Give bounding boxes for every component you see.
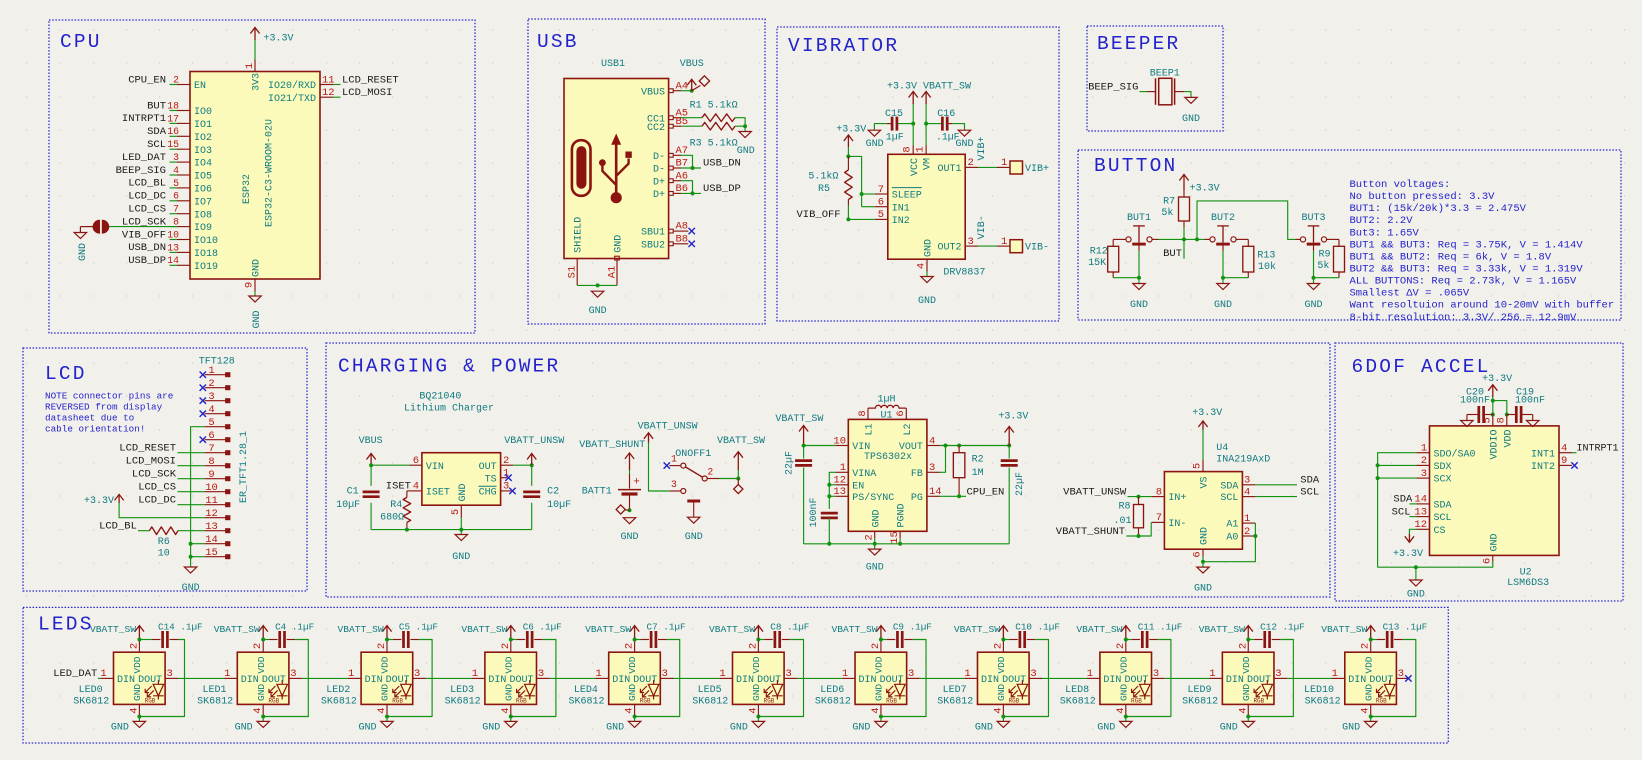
svg-text:FB: FB <box>911 469 923 480</box>
junction VDD LED1 <box>261 638 265 642</box>
svg-text:A1: A1 <box>1226 520 1238 531</box>
power VBATT_UNSW (charger out) <box>527 454 536 466</box>
LED unit LED9 SK6812 body <box>1222 652 1274 704</box>
svg-text:Lithium Charger: Lithium Charger <box>404 403 494 415</box>
wire BUT1 left to R12 <box>1113 238 1126 240</box>
wire D- A7 to B7 net USB_DN <box>681 155 693 168</box>
LED7 internal diode symbol <box>1009 680 1027 700</box>
TFT128 pin 9 <box>205 478 226 480</box>
wire stub net BUT <box>1183 239 1185 258</box>
ground symbol (CPU jumper) <box>74 233 86 239</box>
svg-text:LCD: LCD <box>45 363 87 385</box>
resistor R2 1M <box>958 446 960 453</box>
junction R8 top <box>1137 495 1141 499</box>
svg-text:LCD_RESET: LCD_RESET <box>342 74 399 86</box>
junction accel ground <box>1414 565 1418 569</box>
wire BUT1 stem to ground <box>1138 251 1140 284</box>
svg-text:IO5: IO5 <box>194 172 212 183</box>
svg-text:10: 10 <box>158 549 170 560</box>
resistor R4 680 <box>407 490 410 492</box>
svg-text:4: 4 <box>208 404 214 416</box>
svg-text:GND: GND <box>866 563 884 574</box>
svg-text:GND: GND <box>1489 533 1500 551</box>
svg-text:GND: GND <box>1363 684 1374 701</box>
svg-text:15K: 15K <box>1088 258 1106 269</box>
power VBATT_SW (switch) <box>734 452 743 470</box>
TFT128 pin 11 <box>205 504 226 506</box>
wire FB to VOUT <box>940 446 946 473</box>
svg-text:+: + <box>633 477 640 489</box>
svg-text:USB_DN: USB_DN <box>128 242 166 254</box>
wire+net label LCD_DC <box>178 504 205 506</box>
resistor R6 10 <box>149 527 178 535</box>
pin PG (14) <box>927 495 940 497</box>
svg-text:SK6812: SK6812 <box>321 697 357 708</box>
pin GND (6) bottom accel <box>1492 555 1494 561</box>
wire BUT2 stem to ground <box>1222 251 1224 284</box>
svg-text:SBU1: SBU1 <box>641 228 665 239</box>
svg-text:VINA: VINA <box>852 469 876 480</box>
svg-text:1: 1 <box>348 668 354 680</box>
LED unit LED3 SK6812 body <box>485 652 537 704</box>
junction R5 top <box>846 154 850 158</box>
svg-text:EN: EN <box>852 481 864 492</box>
resistor R9 5k <box>1334 246 1345 272</box>
svg-text:C11 .1µF: C11 .1µF <box>1138 622 1183 633</box>
wire R9 bottom to BUT3 ground <box>1338 272 1340 278</box>
svg-text:LCD_SCK: LCD_SCK <box>132 469 177 481</box>
svg-text:VM: VM <box>923 158 934 170</box>
svg-text:GND: GND <box>975 723 993 734</box>
pin VDD (2) of LED9 <box>1247 640 1249 653</box>
svg-text:3: 3 <box>173 152 179 163</box>
pin SDA (3) with label <box>1242 484 1255 486</box>
no-connect TFT128 pin 4 <box>200 411 206 417</box>
pin DIN (1) of LED4 <box>596 677 609 679</box>
svg-text:2: 2 <box>1237 643 1249 649</box>
junction VDD LED6 <box>879 638 883 642</box>
ground symbol (BUT2) <box>1217 284 1229 290</box>
svg-text:VBATT_SW: VBATT_SW <box>1199 624 1245 635</box>
pin VDD (2) of LED2 <box>386 640 388 653</box>
svg-text:C2: C2 <box>547 487 559 498</box>
svg-text:GND: GND <box>1342 723 1360 734</box>
wire pin12 to +3.3V <box>119 503 205 518</box>
svg-text:8: 8 <box>857 410 869 416</box>
svg-text:LEDS: LEDS <box>38 614 94 636</box>
wire BEEP_SIG to buzzer <box>1140 91 1148 93</box>
junction pin14 <box>189 542 193 546</box>
junction VDD LED10 <box>1369 638 1373 642</box>
svg-text:TS: TS <box>485 474 497 485</box>
connector VIB- (pin 1) <box>997 245 1010 247</box>
svg-text:3: 3 <box>414 668 420 680</box>
svg-text:9: 9 <box>244 282 256 288</box>
svg-text:RGB: RGB <box>1253 697 1264 704</box>
LED0 internal diode symbol <box>145 680 164 700</box>
junction USB_DP <box>691 191 695 195</box>
IC U? ESP32-C3-WROOM-02U body <box>190 72 320 280</box>
junction 100nF rail <box>827 542 831 546</box>
svg-text:+3.3V: +3.3V <box>264 34 294 45</box>
pin VINA (1) <box>835 471 848 473</box>
svg-text:BUT: BUT <box>147 100 166 112</box>
svg-text:C10 .1µF: C10 .1µF <box>1015 622 1060 633</box>
junction VDD LED9 <box>1246 638 1250 642</box>
ground symbol (CPU) <box>249 296 261 302</box>
USB1 pin D- (B7) <box>669 166 674 170</box>
svg-text:11: 11 <box>322 74 335 86</box>
svg-text:2: 2 <box>208 378 214 390</box>
pin DIN (1) of LED10 <box>1332 677 1345 679</box>
svg-text:8: 8 <box>1495 417 1507 423</box>
pin TS (1) no-connect <box>501 477 507 479</box>
svg-text:IO9: IO9 <box>194 223 212 234</box>
junction VDD LED5 <box>756 638 760 642</box>
svg-text:VBUS: VBUS <box>641 87 665 98</box>
capacitor 100nF (TPS) <box>821 513 838 518</box>
junction BUT2 ground <box>1221 276 1225 280</box>
section border USB <box>528 19 765 324</box>
ground symbol (battery) <box>623 518 635 524</box>
svg-text:OUT2: OUT2 <box>937 243 961 254</box>
svg-text:1: 1 <box>472 668 478 680</box>
ground symbol (LED0) <box>138 717 140 722</box>
svg-text:R13: R13 <box>1257 251 1275 262</box>
svg-text:SDA: SDA <box>1300 475 1320 487</box>
svg-text:CPU_EN: CPU_EN <box>967 486 1005 498</box>
svg-text:IO21/TXD: IO21/TXD <box>268 93 316 105</box>
svg-text:13: 13 <box>205 521 218 533</box>
pin DIN (1) of LED9 <box>1209 677 1222 679</box>
wire VBATT_SW to VM pin <box>925 104 927 146</box>
svg-text:SHIELD: SHIELD <box>574 217 585 253</box>
LED unit LED1 SK6812 body <box>237 652 289 704</box>
svg-text:16: 16 <box>167 126 179 137</box>
svg-text:Smallest ΔV = .065V: Smallest ΔV = .065V <box>1350 288 1470 300</box>
svg-text:6: 6 <box>895 410 907 416</box>
pin IO2 (16) with net label SDA <box>177 135 190 137</box>
svg-text:LED3: LED3 <box>450 685 474 696</box>
svg-text:1µH: 1µH <box>877 395 895 406</box>
svg-text:+3.3V: +3.3V <box>836 125 866 136</box>
svg-text:4: 4 <box>376 707 388 713</box>
svg-text:SK6812: SK6812 <box>1305 697 1341 708</box>
svg-text:IN1: IN1 <box>892 203 910 214</box>
svg-text:BQ21040: BQ21040 <box>419 392 461 403</box>
pin DIN (1) of LED8 <box>1087 677 1100 679</box>
power +3.3V (LCD) <box>115 494 124 503</box>
pin IO9 (8) with net label LCD_SCK <box>177 226 190 228</box>
svg-text:IO10: IO10 <box>194 236 218 247</box>
USB1 pin S1 (SHIELD) bottom <box>576 259 578 285</box>
svg-text:VBATT_SW: VBATT_SW <box>954 624 1000 635</box>
pin VDD (2) of LED1 <box>262 640 264 653</box>
LED unit LED5 SK6812 body <box>733 652 785 704</box>
wire DOUT LED2 to DIN LED3 <box>426 677 472 679</box>
junction VDD LED4 <box>633 638 637 642</box>
svg-text:1: 1 <box>1001 157 1007 169</box>
pin VDD (2) of LED4 <box>634 640 636 653</box>
svg-text:1: 1 <box>842 668 848 680</box>
svg-text:13: 13 <box>167 242 179 253</box>
resistor R1 5.1k <box>702 114 735 122</box>
svg-text:VOUT: VOUT <box>899 442 923 453</box>
pin IO4 (3) with net label LED_DAT <box>177 161 190 163</box>
svg-text:INA219AxD: INA219AxD <box>1216 455 1270 466</box>
svg-text:RGB: RGB <box>516 697 527 704</box>
svg-text:VBUS: VBUS <box>680 59 704 70</box>
svg-text:6: 6 <box>1481 558 1493 564</box>
svg-text:EN: EN <box>194 81 206 92</box>
junction TPS gnd <box>873 542 877 546</box>
pin GND (4) of LED10 <box>1370 704 1372 715</box>
wire buzzer to ground <box>1184 92 1191 98</box>
svg-text:VDDIO: VDDIO <box>1489 430 1500 460</box>
svg-text:6DOF ACCEL: 6DOF ACCEL <box>1352 356 1491 378</box>
wire jumper to ground <box>80 226 94 228</box>
svg-text:2: 2 <box>128 643 140 649</box>
junction EN <box>827 483 831 487</box>
USB1 pin SBU1 (A8) <box>669 229 674 233</box>
pin VDD (2) of LED10 <box>1370 640 1372 653</box>
junction VOUT <box>944 444 948 448</box>
svg-text:GND: GND <box>996 684 1007 701</box>
TFT128 pin 14 <box>205 543 226 545</box>
svg-text:BUT1: BUT1 <box>1127 213 1151 224</box>
ground symbol (LED10) <box>1370 717 1372 722</box>
USB1 pin D+ (B6) <box>669 192 674 196</box>
pin SDX (2) <box>1417 464 1430 466</box>
junction GND LED0 <box>137 715 141 719</box>
pin GND (6) bottom <box>1202 549 1204 556</box>
junction SCX <box>1376 476 1380 480</box>
svg-text:SK6812: SK6812 <box>815 697 851 708</box>
svg-text:GND: GND <box>955 139 973 150</box>
pin VS (5) top <box>1202 430 1204 460</box>
pin IO18 (13) with net label USB_DN <box>177 251 190 253</box>
wire VBATT_SW to VIN <box>804 445 836 447</box>
svg-text:R5: R5 <box>818 184 830 195</box>
pin VCC (8) <box>912 146 914 155</box>
long pin stubs SBU1/SBU2 <box>681 230 688 232</box>
capacitor C13 .1uF <box>1371 639 1377 641</box>
svg-text:GND: GND <box>620 532 638 543</box>
svg-text:14: 14 <box>167 255 179 266</box>
svg-text:10: 10 <box>205 482 218 494</box>
svg-text:VIB_OFF: VIB_OFF <box>796 209 840 221</box>
svg-text:BUT: BUT <box>1163 248 1182 260</box>
wire cap to ground (LED5) <box>758 640 803 717</box>
svg-text:VBATT_UNSW: VBATT_UNSW <box>504 436 564 447</box>
svg-text:SCX: SCX <box>1434 475 1452 486</box>
resistor R5 5.1k <box>847 156 849 170</box>
wire pin15 <box>191 556 205 558</box>
inductor 1uH between L1 and L2 <box>867 408 869 419</box>
ground symbol (C19) <box>1532 415 1534 421</box>
svg-text:2: 2 <box>992 643 1004 649</box>
svg-text:GND: GND <box>730 723 748 734</box>
junction R7/BUT <box>1182 237 1186 241</box>
svg-text:LED_DAT: LED_DAT <box>122 152 166 164</box>
svg-text:LCD_BL: LCD_BL <box>128 178 166 190</box>
svg-text:VBATT_SW: VBATT_SW <box>461 624 507 635</box>
svg-text:RGB: RGB <box>145 697 156 704</box>
svg-text:2: 2 <box>1244 526 1250 538</box>
wire DOUT LED8 to DIN LED9 <box>1165 677 1209 679</box>
svg-text:S1: S1 <box>567 266 579 279</box>
svg-text:6: 6 <box>208 430 214 442</box>
svg-text:IO20/RXD: IO20/RXD <box>268 80 316 92</box>
svg-text:5: 5 <box>450 509 462 515</box>
USB1 pin D+ (A6) <box>669 179 674 183</box>
junction pin15 <box>189 555 193 559</box>
capacitor C2 10uF <box>531 465 533 486</box>
capacitor C14 .1uF <box>139 639 152 641</box>
svg-text:VIB+: VIB+ <box>977 136 988 160</box>
svg-text:LED10: LED10 <box>1304 685 1334 696</box>
TFT128 pin 8 <box>205 465 226 467</box>
pin IO6 (5) with net label LCD_BL <box>177 187 190 189</box>
svg-text:+3.3V: +3.3V <box>1192 408 1222 419</box>
svg-text:USB_DP: USB_DP <box>128 255 166 267</box>
svg-text:VBATT_SW: VBATT_SW <box>214 624 260 635</box>
svg-text:RGB: RGB <box>640 697 651 704</box>
svg-text:1: 1 <box>915 146 927 152</box>
svg-text:7: 7 <box>1156 512 1162 524</box>
svg-text:GND: GND <box>380 684 391 701</box>
svg-text:SDO/SA0: SDO/SA0 <box>1434 448 1476 460</box>
svg-text:C15: C15 <box>885 109 903 120</box>
pin VOUT (4) <box>927 445 940 447</box>
TFT128 pin 7 <box>205 452 226 454</box>
junction battery ground <box>628 508 632 512</box>
wire D+ B6 <box>681 192 701 194</box>
svg-text:USB1: USB1 <box>601 59 625 70</box>
svg-text:11: 11 <box>205 495 218 507</box>
section border CHARGING & POWER <box>326 343 1330 597</box>
TFT128 pin 13 <box>205 530 226 532</box>
power VBATT_SW (LED2) <box>382 626 391 640</box>
pin DOUT (3) of LED6 <box>907 677 920 679</box>
svg-text:IO19: IO19 <box>194 262 218 273</box>
wire shield+gnd to ground <box>577 284 617 286</box>
svg-text:GND: GND <box>111 723 129 734</box>
svg-text:4: 4 <box>1237 707 1249 713</box>
svg-text:4: 4 <box>1115 707 1127 713</box>
svg-text:SK6812: SK6812 <box>73 697 109 708</box>
svg-text:1: 1 <box>1332 668 1338 680</box>
wire R12 bottom to BUT1 ground <box>1112 272 1114 278</box>
svg-text:GND: GND <box>1130 300 1148 311</box>
pin DOUT (3) of LED7 <box>1029 677 1042 679</box>
svg-text:GND: GND <box>1304 300 1322 311</box>
power +3.3V (button divider) <box>1179 175 1188 191</box>
svg-text:2: 2 <box>252 643 264 649</box>
ground symbol (LED7) <box>1002 717 1004 722</box>
svg-text:2: 2 <box>624 643 636 649</box>
svg-text:1: 1 <box>840 462 846 474</box>
wire LCD_BL to R6 <box>138 530 149 532</box>
pin SCL (13) <box>1417 516 1430 518</box>
ground symbol (accel) <box>1415 567 1417 580</box>
power VBATT_SW (LED9) <box>1244 626 1253 640</box>
svg-text:15: 15 <box>167 139 179 150</box>
svg-text:GND: GND <box>1407 590 1425 601</box>
USB1 pin SBU2 (B8) <box>669 242 674 246</box>
junction R4 bottom <box>405 528 409 532</box>
svg-text:7: 7 <box>878 184 884 196</box>
svg-text:D-: D- <box>653 165 665 176</box>
wire BUT3 stem to ground <box>1313 251 1315 284</box>
wire DOUT LED9 to DIN LED10 <box>1287 677 1331 679</box>
svg-text:GND: GND <box>627 684 638 701</box>
svg-text:VDD: VDD <box>996 656 1007 673</box>
pin GND (4) of LED2 <box>386 704 388 715</box>
pin DOUT (3) of LED8 <box>1152 677 1165 679</box>
svg-text:VDD: VDD <box>503 656 514 673</box>
pin ISET (4) <box>409 490 422 492</box>
junction charger gnd <box>459 528 463 532</box>
wire DOUT LED3 to DIN LED4 <box>550 677 596 679</box>
svg-text:IN+: IN+ <box>1168 493 1186 504</box>
svg-text:3: 3 <box>503 481 509 493</box>
power VBATT_SW (LED0) <box>135 626 144 640</box>
junction OUT/C2 <box>530 463 534 467</box>
pin IO3 (15) with net label SCL <box>177 148 190 150</box>
svg-text:SDX: SDX <box>1434 462 1452 473</box>
wire CS to +3.3V <box>1409 529 1416 534</box>
svg-text:3: 3 <box>166 668 172 680</box>
wire +3.3V to R5 junction <box>847 147 849 156</box>
svg-text:LED6: LED6 <box>820 685 844 696</box>
svg-text:R7: R7 <box>1163 197 1175 208</box>
svg-text:TPS6302x: TPS6302x <box>864 452 912 463</box>
svg-text:14: 14 <box>205 534 218 546</box>
capacitor C20 100nF <box>1467 414 1478 416</box>
svg-text:GND: GND <box>256 684 267 701</box>
svg-text:GND: GND <box>1118 684 1129 701</box>
svg-text:GND: GND <box>358 723 376 734</box>
capacitor C5 .1uF <box>387 639 393 641</box>
section border 6DOF ACCEL <box>1335 343 1623 601</box>
junction C15 rail <box>911 122 915 126</box>
svg-text:GND: GND <box>482 723 500 734</box>
svg-text:BUT1 && BUT3: Req = 3.75K, V =: BUT1 && BUT3: Req = 3.75K, V = 1.414V <box>1350 239 1584 251</box>
svg-text:IO2: IO2 <box>194 133 212 144</box>
svg-text:BEEP_SIG: BEEP_SIG <box>116 165 166 177</box>
svg-text:RGB: RGB <box>268 697 279 704</box>
svg-text:A0: A0 <box>1226 533 1238 544</box>
svg-text:LED0: LED0 <box>79 685 103 696</box>
svg-text:VBATT_SW: VBATT_SW <box>1076 624 1122 635</box>
svg-text:2: 2 <box>968 157 974 169</box>
svg-text:NOTE connector pins are: NOTE connector pins are <box>45 390 173 401</box>
svg-text:USB_DP: USB_DP <box>703 183 741 195</box>
svg-text:GND: GND <box>132 684 143 701</box>
svg-text:15: 15 <box>889 531 901 544</box>
svg-text:3: 3 <box>908 668 914 680</box>
svg-text:TFT128: TFT128 <box>199 357 235 368</box>
power flag PWR_FLAG (battery) <box>625 509 630 512</box>
capacitor C6 .1uF <box>511 639 517 641</box>
svg-text:5: 5 <box>1192 463 1204 469</box>
svg-text:1: 1 <box>1001 236 1007 248</box>
pin GND (4) of LED6 <box>880 704 882 715</box>
svg-text:LED9: LED9 <box>1188 685 1212 696</box>
svg-text:2: 2 <box>870 643 882 649</box>
svg-text:D+: D+ <box>653 177 665 188</box>
